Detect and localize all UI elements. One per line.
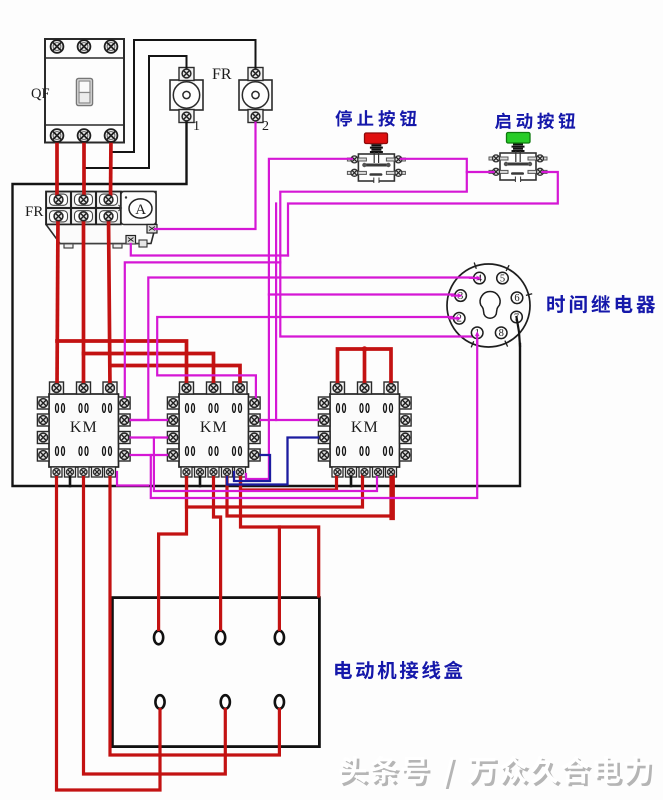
fuse FU1	[170, 68, 203, 123]
pin 6	[511, 292, 523, 304]
svg-text:KM: KM	[70, 419, 98, 436]
wire: branch to relay pin 3 (magenta)	[269, 293, 455, 295]
pin 3	[455, 290, 467, 302]
wire: QF to FR phase L3 (red)	[109, 136, 113, 200]
contactor KM3	[318, 382, 411, 477]
wire: KM1 aux to relay pin 1 line (magenta)	[124, 339, 477, 499]
label start button	[495, 113, 575, 130]
wire: KM3 output stub (red)	[391, 472, 393, 519]
svg-text:A: A	[135, 202, 146, 218]
watermark brand text	[339, 756, 652, 789]
wire: KM2 side interlock hook (blue)	[234, 455, 270, 481]
wire: KM1 out U loop to motor W2 (red)	[57, 472, 161, 790]
wire: KM1-KM2 aux bridge row 4 (magenta)	[151, 454, 173, 456]
wire: KM2 out to motor U1 (red)	[159, 472, 187, 630]
wire: branch to KM2 aux line (magenta)	[275, 204, 277, 421]
node: KM3 bus junction	[362, 346, 368, 352]
svg-text:KM: KM	[351, 419, 379, 436]
wire: pin 1 arrow	[476, 335, 478, 345]
svg-text:1: 1	[193, 119, 200, 134]
KM side aux terminals	[120, 399, 129, 408]
wire: relay pin 2 line to KM2 aux input (magenta)	[157, 317, 454, 401]
svg-text:QF: QF	[31, 86, 50, 102]
wire: KM2-KM3 link 1 (red)	[187, 472, 363, 507]
start push button SB2	[489, 133, 547, 183]
svg-text:6: 6	[514, 293, 519, 304]
wire: FR to KM1 phase L1 (red)	[57, 216, 58, 388]
stop push button SB1	[347, 133, 405, 183]
wire: pin 4 arrow	[470, 277, 478, 280]
wire: FR to KM1 phase L2 (red)	[82, 216, 86, 388]
pin 4	[474, 272, 486, 284]
circuit breaker QF	[45, 39, 124, 143]
wire: FR to KM1 phase L3 (red)	[109, 216, 111, 388]
wire: stop-start link stub (magenta)	[467, 171, 494, 173]
contactor KM2	[167, 382, 260, 477]
wire: start button right return (magenta)	[288, 172, 558, 256]
wire: pin 3 arrow	[452, 295, 460, 297]
pin 7	[511, 311, 523, 323]
wire: pin 2 arrow	[450, 317, 458, 319]
wire: branch L2 to KM2 (red)	[84, 354, 214, 389]
wire: KM1 out V loop to motor V2 (red)	[84, 472, 226, 774]
svg-text:5: 5	[500, 273, 505, 284]
wire: branch L1 to KM2 (red)	[57, 341, 187, 388]
wire: aux branch down to KM3 coil (magenta)	[154, 438, 377, 492]
wire: KM3 input bus (red)	[338, 349, 392, 388]
wire: fuse FU1 bottom around enclosure to relay pin 7 (black)	[13, 117, 521, 487]
thermal overload relay FR	[46, 192, 157, 249]
wire: KM1 bottom aux hook (magenta)	[117, 472, 148, 486]
fuse terminals	[182, 69, 191, 78]
wire: QF L2 to fuse FU1 top (black)	[86, 56, 187, 168]
wire: fuse FU2 to FR aux contact (magenta)	[155, 117, 256, 230]
wire: link to motor box corner (red)	[279, 527, 318, 596]
svg-text:FR: FR	[212, 66, 232, 83]
wire: branch L3 to KM2 (red)	[110, 366, 240, 389]
wire: pin 7 black lead	[517, 317, 521, 346]
wire: KM2 out to motor W1 (red)	[241, 472, 280, 630]
wire: KM3 coil stub (black)	[350, 472, 353, 486]
wire: QF L3 to fuse FU2 top (black)	[111, 40, 256, 152]
KM output terminals	[53, 469, 60, 476]
wire: KM1 aux to KM3 coil (magenta)	[124, 436, 173, 438]
pin 2	[453, 313, 465, 325]
svg-text:2: 2	[262, 119, 269, 134]
time relay octal socket U1	[447, 263, 532, 348]
pin 5	[497, 272, 509, 284]
wire: QF to FR phase L1 (red)	[55, 136, 59, 200]
wire: FR aux to start return junction (magenta)	[131, 244, 288, 256]
wire: KM2 coil stub (black)	[199, 472, 202, 486]
wire: KM2 aux to KM3 aux (magenta)	[254, 419, 321, 421]
wire: KM3 middle input drop (red)	[363, 349, 367, 388]
label time relay	[547, 295, 655, 313]
FR terminals	[54, 195, 63, 204]
wire: relay pin 4 line to KM1 aux (magenta)	[124, 278, 474, 421]
motor terminal box	[112, 598, 319, 747]
svg-text:8: 8	[499, 328, 504, 339]
wire: KM2-KM3 link 2 (red)	[227, 472, 391, 516]
wire: KM2-KM3 link 3 (red)	[241, 472, 337, 490]
wire: KM1 out W loop to motor U2 (red)	[110, 472, 279, 755]
wire: QF to FR phase L2 (red)	[82, 136, 86, 200]
wire: KM2 out to motor V1 (red)	[214, 472, 221, 630]
fuse FU2	[239, 68, 272, 123]
pin 8	[495, 327, 507, 339]
label motor terminal box	[335, 661, 463, 680]
svg-text:KM: KM	[200, 419, 228, 436]
wire: stop button right to relay pin 8 (magenta)	[280, 159, 473, 337]
label stop button	[335, 110, 416, 127]
wire: KM1-KM2 aux bridge row 2 (magenta)	[124, 419, 173, 421]
QF output terminals	[51, 129, 64, 142]
contactor KM1	[37, 382, 130, 477]
pin 1	[471, 327, 483, 339]
KM input terminals	[52, 384, 61, 393]
wire: KM2 to KM3 interlock (blue)	[227, 438, 320, 485]
wire: KM1 aux riser to control line (magenta)	[125, 262, 280, 403]
wire: stop button left to KM2 coil area (magenta)	[246, 159, 352, 479]
svg-text:FR: FR	[25, 204, 43, 220]
wire: KM1 coil stub (black)	[69, 472, 72, 486]
